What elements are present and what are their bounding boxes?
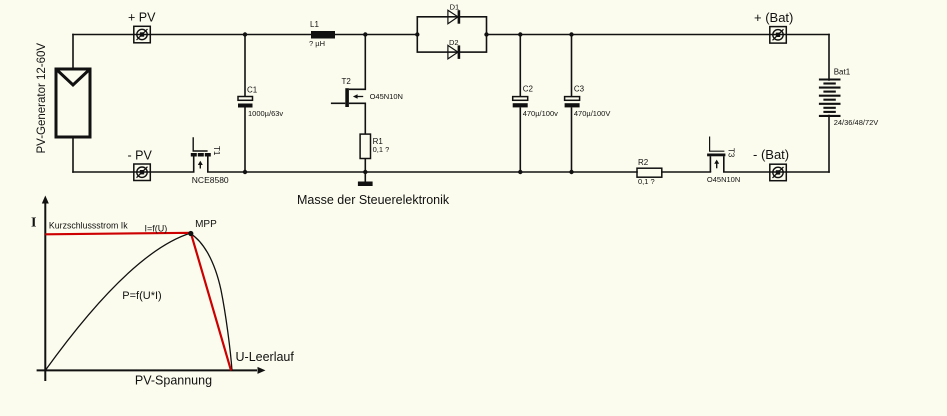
wire bottom rail (-PV net) from panel to T1 drain [73, 171, 194, 173]
terminal X3 +Bat [770, 27, 787, 43]
svg-text:+ (Bat): + (Bat) [754, 10, 793, 25]
svg-text:C1: C1 [247, 86, 258, 95]
svg-text:PV-Generator 12-60V: PV-Generator 12-60V [36, 43, 48, 154]
junction at C1 bottom [243, 170, 247, 174]
diode D1 [448, 10, 460, 24]
solar panel generator symbol [56, 69, 90, 137]
svg-text:24/36/48/72V: 24/36/48/72V [834, 118, 879, 127]
graph x-axis (PV voltage) [37, 367, 266, 374]
svg-text:Bat1: Bat1 [834, 68, 851, 77]
svg-text:O45N10N: O45N10N [707, 175, 740, 184]
svg-text:PV-Spannung: PV-Spannung [135, 374, 212, 388]
battery Bat1 [819, 80, 841, 116]
capacitor C2 [513, 35, 528, 173]
capacitor C1 [238, 35, 253, 173]
svg-text:I: I [31, 216, 36, 231]
wire top rail from diode bridge to battery corner [487, 34, 830, 36]
svg-text:+ PV: + PV [128, 11, 156, 25]
wire battery top lead [828, 35, 830, 81]
svg-text:470µ/100v: 470µ/100v [523, 109, 558, 118]
wire bottom rail (ground net) from T1 source to R2 [208, 171, 637, 173]
svg-text:- PV: - PV [128, 149, 153, 163]
terminal X2 -PV [134, 164, 151, 181]
svg-text:D2: D2 [449, 38, 459, 47]
graph y-axis (current I) [42, 196, 49, 382]
curve I=f(U) falling branch [191, 234, 232, 371]
svg-text:MPP: MPP [195, 219, 217, 230]
junction at diode bridge right [484, 32, 488, 36]
junction at C3 top [569, 32, 573, 36]
svg-text:NCE8580: NCE8580 [192, 175, 229, 185]
wire battery bottom lead [828, 116, 830, 173]
inductor L1 [311, 31, 335, 39]
junction at C2 bottom [518, 170, 522, 174]
red short-circuit current line Ik [45, 233, 231, 371]
junction at C3 bottom [569, 170, 573, 174]
junction at C1 top [243, 32, 247, 36]
wire diode bridge loop [417, 17, 486, 52]
svg-text:C3: C3 [574, 85, 585, 94]
wire PV-generator bottom lead [72, 137, 74, 173]
terminal X1 +PV [134, 26, 151, 43]
svg-text:1000µ/63v: 1000µ/63v [248, 109, 283, 118]
svg-text:Kurzschlussstrom Ik: Kurzschlussstrom Ik [49, 221, 128, 231]
svg-text:0,1 ?: 0,1 ? [373, 145, 390, 154]
svg-text:T2: T2 [342, 77, 352, 86]
transistor T3 (MOSFET) [707, 137, 725, 173]
transistor T2 (MOSFET) [331, 35, 365, 135]
transistor T1 (MOSFET) [191, 137, 211, 172]
junction at diode bridge left [415, 32, 419, 36]
wire bottom rail (-Bat net) from T3 source to battery [724, 171, 829, 173]
svg-text:L1: L1 [310, 20, 319, 29]
svg-text:P=f(U*I): P=f(U*I) [122, 290, 161, 302]
ground symbol (Masse) [358, 172, 373, 186]
resistor R1 [360, 134, 370, 172]
svg-text:O45N10N: O45N10N [370, 92, 403, 101]
svg-text:I=f(U): I=f(U) [145, 224, 168, 234]
wire from +PV rail corner down to PV-generator top [72, 35, 74, 70]
terminal X4 -Bat [770, 164, 787, 181]
wire top rail (+PV net) from left corner to diode bridge [73, 34, 417, 36]
junction at R1 bottom / ground [363, 170, 367, 174]
svg-text:U-Leerlauf: U-Leerlauf [236, 350, 295, 364]
svg-text:- (Bat): - (Bat) [753, 147, 789, 162]
svg-text:? µH: ? µH [309, 39, 325, 48]
junction at T2 drain [363, 32, 367, 36]
svg-text:Masse der Steuerelektronik: Masse der Steuerelektronik [297, 193, 450, 207]
svg-text:D1: D1 [450, 3, 460, 12]
node MPP dot [188, 231, 193, 236]
svg-text:C2: C2 [523, 85, 534, 94]
svg-text:470µ/100V: 470µ/100V [574, 109, 610, 118]
svg-text:R2: R2 [638, 158, 649, 167]
wire bottom rail from R2 to T3 drain [662, 171, 711, 173]
capacitor C3 [565, 35, 580, 173]
junction at C2 top [518, 32, 522, 36]
curve P=f(U*I) [45, 233, 191, 370]
svg-text:T1: T1 [212, 146, 221, 156]
resistor R2 [637, 168, 662, 177]
svg-text:T3: T3 [727, 148, 736, 158]
svg-text:0,1 ?: 0,1 ? [638, 177, 655, 186]
diode D2 [448, 45, 460, 59]
